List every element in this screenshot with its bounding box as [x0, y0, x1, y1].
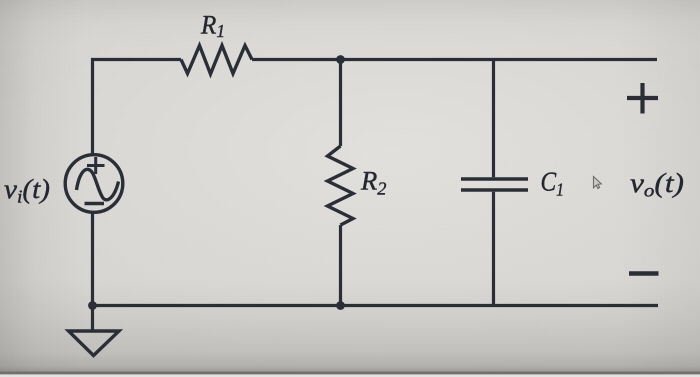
svg-text:vo(t): vo(t): [630, 168, 684, 201]
svg-text:vi(t): vi(t): [4, 174, 50, 207]
svg-text:C1: C1: [541, 167, 565, 200]
svg-text:R2: R2: [360, 167, 387, 199]
svg-text:R1: R1: [200, 11, 225, 42]
